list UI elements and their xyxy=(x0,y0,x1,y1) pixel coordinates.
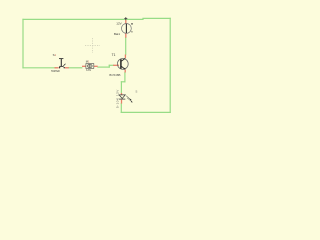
svg-text:BC548B: BC548B xyxy=(109,73,120,77)
svg-text:M1: M1 xyxy=(86,59,90,63)
svg-text:TASTER: TASTER xyxy=(51,70,60,73)
svg-text:12V: 12V xyxy=(116,22,121,26)
svg-text:T1: T1 xyxy=(112,53,116,57)
svg-text:S1: S1 xyxy=(53,53,57,57)
svg-text:5-10K 12V: 5-10K 12V xyxy=(115,89,119,108)
svg-text:Bat1: Bat1 xyxy=(114,32,120,36)
svg-text:S: S xyxy=(135,90,137,94)
svg-text:3-6V: 3-6V xyxy=(86,69,91,72)
